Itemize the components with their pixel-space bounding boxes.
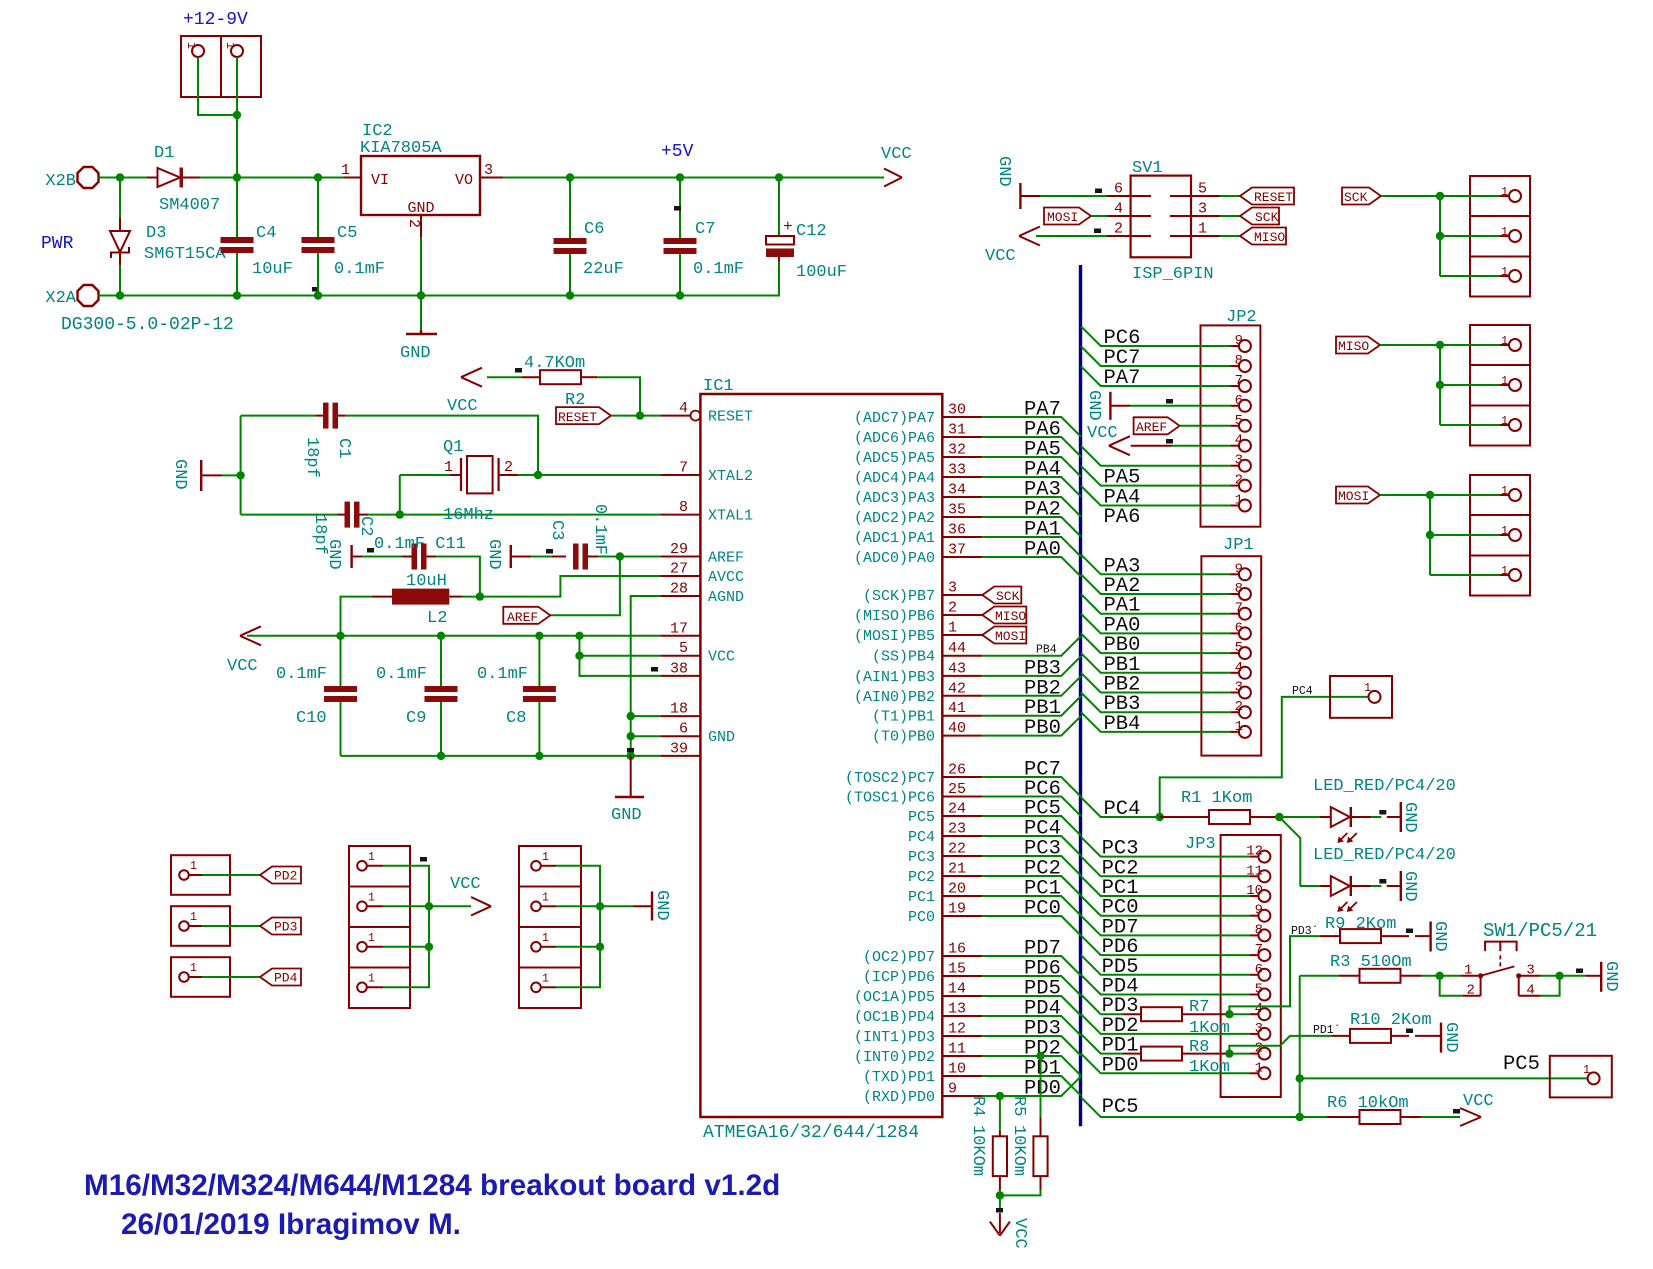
svg-text:100uF: 100uF — [796, 263, 847, 282]
svg-text:(ADC7)PA7: (ADC7)PA7 — [854, 410, 935, 427]
svg-text:PC0: PC0 — [1024, 898, 1061, 921]
svg-text:RESET: RESET — [1254, 190, 1293, 205]
svg-text:RESET: RESET — [708, 409, 753, 426]
svg-text:14: 14 — [948, 981, 966, 998]
svg-text:1: 1 — [542, 851, 549, 864]
svg-text:(T0)PB0: (T0)PB0 — [872, 729, 935, 746]
svg-text:28: 28 — [670, 581, 688, 598]
svg-text:1: 1 — [190, 860, 197, 873]
svg-text:43: 43 — [948, 660, 966, 677]
svg-text:PC2: PC2 — [908, 869, 935, 886]
svg-text:22uF: 22uF — [583, 260, 624, 279]
svg-text:1: 1 — [1198, 221, 1207, 238]
svg-text:4.7KOm: 4.7KOm — [524, 354, 585, 373]
svg-text:(ADC4)PA4: (ADC4)PA4 — [854, 470, 935, 487]
svg-text:39: 39 — [670, 740, 688, 757]
svg-text:1: 1 — [1235, 719, 1243, 735]
svg-text:0.1mF: 0.1mF — [376, 665, 427, 684]
svg-text:RESET: RESET — [558, 410, 597, 425]
svg-text:GND: GND — [484, 539, 503, 570]
svg-text:GND: GND — [708, 729, 735, 746]
svg-text:R9 2Kom: R9 2Kom — [1325, 915, 1396, 934]
svg-text:C3: C3 — [547, 520, 566, 540]
svg-text:1: 1 — [1501, 525, 1508, 538]
svg-text:15: 15 — [948, 961, 966, 978]
svg-text:36: 36 — [948, 522, 966, 539]
svg-text:PC4: PC4 — [1104, 798, 1141, 821]
svg-text:JP3: JP3 — [1185, 835, 1216, 854]
svg-text:1: 1 — [368, 932, 375, 945]
svg-text:38: 38 — [670, 660, 688, 677]
svg-text:(ADC6)PA6: (ADC6)PA6 — [854, 430, 935, 447]
svg-text:(OC1B)PD4: (OC1B)PD4 — [854, 1009, 935, 1026]
svg-text:1: 1 — [1501, 226, 1508, 239]
svg-text:ATMEGA16/32/644/1284: ATMEGA16/32/644/1284 — [703, 1123, 919, 1143]
svg-text:GND: GND — [1400, 802, 1419, 833]
svg-text:(T1)PB1: (T1)PB1 — [872, 709, 935, 726]
svg-text:(INT0)PD2: (INT0)PD2 — [854, 1049, 935, 1066]
svg-text:(INT1)PD3: (INT1)PD3 — [854, 1029, 935, 1046]
svg-text:PC5: PC5 — [1102, 1096, 1139, 1119]
svg-text:1: 1 — [184, 42, 197, 49]
svg-text:10: 10 — [948, 1061, 966, 1078]
svg-text:AREF: AREF — [708, 550, 744, 567]
svg-text:21: 21 — [948, 861, 966, 878]
svg-text:AVCC: AVCC — [708, 569, 744, 586]
svg-text:R4: R4 — [968, 1096, 987, 1116]
svg-text:6: 6 — [1255, 962, 1263, 978]
svg-text:LED_RED/PC4/20: LED_RED/PC4/20 — [1313, 846, 1456, 865]
svg-text:C7: C7 — [695, 220, 715, 239]
svg-text:C12: C12 — [796, 222, 827, 241]
svg-text:+5V: +5V — [661, 142, 694, 162]
svg-text:(TOSC1)PC6: (TOSC1)PC6 — [845, 790, 935, 807]
svg-text:6: 6 — [1235, 620, 1243, 636]
svg-text:PD0: PD0 — [1024, 1078, 1061, 1101]
svg-text:GND: GND — [994, 156, 1013, 187]
svg-text:3: 3 — [948, 580, 957, 597]
svg-text:1: 1 — [1501, 266, 1508, 279]
svg-text:10KOm: 10KOm — [968, 1125, 987, 1176]
svg-text:1: 1 — [1464, 963, 1472, 979]
svg-text:R7: R7 — [1189, 998, 1209, 1017]
svg-text:1: 1 — [542, 972, 549, 985]
svg-text:GND: GND — [652, 890, 671, 921]
svg-text:26: 26 — [948, 762, 966, 779]
svg-text:4: 4 — [1526, 982, 1534, 998]
svg-text:PA0: PA0 — [1024, 539, 1061, 562]
svg-text:26/01/2019 Ibragimov M.: 26/01/2019 Ibragimov M. — [121, 1208, 461, 1241]
svg-text:VCC: VCC — [1010, 1218, 1029, 1249]
svg-text:3: 3 — [484, 162, 493, 179]
svg-text:PD3´: PD3´ — [1291, 925, 1319, 938]
svg-text:GND: GND — [170, 459, 189, 490]
svg-text:0.1mF: 0.1mF — [477, 665, 528, 684]
svg-text:5: 5 — [1255, 982, 1263, 998]
svg-text:42: 42 — [948, 680, 966, 697]
svg-text:1: 1 — [1501, 415, 1508, 428]
svg-text:PC1: PC1 — [908, 889, 935, 906]
svg-text:0.1mF: 0.1mF — [334, 260, 385, 279]
svg-text:GND: GND — [1441, 1022, 1460, 1053]
svg-text:L2: L2 — [427, 609, 447, 628]
svg-text:PC4: PC4 — [1292, 685, 1313, 698]
svg-text:34: 34 — [948, 482, 966, 499]
svg-text:PD2: PD2 — [274, 869, 297, 884]
svg-text:PC4: PC4 — [908, 829, 935, 846]
svg-text:41: 41 — [948, 700, 966, 717]
svg-text:6: 6 — [679, 721, 688, 738]
svg-text:2: 2 — [1467, 982, 1475, 998]
svg-text:SCK: SCK — [1255, 210, 1279, 225]
svg-text:30: 30 — [948, 402, 966, 419]
svg-text:VCC: VCC — [1087, 424, 1118, 443]
svg-text:1: 1 — [1364, 682, 1371, 695]
svg-text:VCC: VCC — [881, 145, 912, 164]
svg-text:1: 1 — [1583, 1064, 1590, 1077]
svg-text:C4: C4 — [256, 224, 276, 243]
svg-text:10uH: 10uH — [406, 572, 447, 591]
svg-text:29: 29 — [670, 541, 688, 558]
svg-text:4: 4 — [1235, 660, 1243, 676]
svg-text:R8: R8 — [1189, 1038, 1209, 1057]
svg-text:MOSI: MOSI — [1338, 489, 1369, 504]
svg-text:GND: GND — [611, 806, 642, 825]
svg-text:18: 18 — [670, 701, 688, 718]
svg-text:35: 35 — [948, 502, 966, 519]
svg-text:PD3: PD3 — [274, 920, 297, 935]
svg-text:VO: VO — [455, 172, 473, 189]
svg-text:VCC: VCC — [708, 649, 735, 666]
svg-text:VCC: VCC — [450, 875, 481, 894]
svg-text:C6: C6 — [584, 220, 604, 239]
svg-text:GND: GND — [407, 200, 434, 217]
svg-text:SM4007: SM4007 — [159, 196, 220, 215]
svg-text:4: 4 — [1114, 201, 1123, 218]
svg-text:X2B: X2B — [45, 172, 76, 191]
svg-text:8: 8 — [1255, 922, 1263, 938]
svg-text:JP2: JP2 — [1226, 308, 1257, 327]
svg-text:(ADC2)PA2: (ADC2)PA2 — [854, 510, 935, 527]
svg-text:1: 1 — [341, 162, 350, 179]
svg-text:MOSI: MOSI — [1047, 210, 1078, 225]
svg-text:PD4: PD4 — [274, 971, 298, 986]
svg-text:(AIN0)PB2: (AIN0)PB2 — [854, 689, 935, 706]
svg-text:27: 27 — [670, 561, 688, 578]
svg-text:2: 2 — [1235, 699, 1243, 715]
svg-text:GND: GND — [1084, 390, 1103, 421]
svg-text:(MISO)PB6: (MISO)PB6 — [854, 608, 935, 625]
svg-text:24: 24 — [948, 801, 966, 818]
svg-text:R6 10kOm: R6 10kOm — [1327, 1094, 1409, 1113]
svg-text:9: 9 — [1255, 903, 1263, 919]
svg-text:(ADC0)PA0: (ADC0)PA0 — [854, 550, 935, 567]
svg-text:(TOSC2)PC7: (TOSC2)PC7 — [845, 770, 935, 787]
svg-text:JP1: JP1 — [1223, 536, 1254, 555]
svg-text:PB4: PB4 — [1104, 713, 1141, 736]
svg-text:2: 2 — [948, 600, 957, 617]
svg-text:25: 25 — [948, 781, 966, 798]
svg-text:5: 5 — [1198, 181, 1207, 198]
svg-text:13: 13 — [948, 1001, 966, 1018]
svg-text:7: 7 — [679, 460, 688, 477]
svg-text:AREF: AREF — [507, 610, 538, 625]
svg-text:SW1/PC5/21: SW1/PC5/21 — [1483, 920, 1597, 942]
svg-text:1: 1 — [1501, 335, 1508, 348]
svg-text:MOSI: MOSI — [995, 629, 1026, 644]
svg-text:18pf: 18pf — [302, 437, 321, 478]
svg-text:1: 1 — [444, 459, 453, 476]
svg-text:SM6T15CA: SM6T15CA — [144, 245, 226, 264]
svg-text:VI: VI — [371, 172, 389, 189]
svg-text:C9: C9 — [406, 709, 426, 728]
svg-text:37: 37 — [948, 542, 966, 559]
svg-text:(SS)PB4: (SS)PB4 — [872, 649, 935, 666]
svg-text:10uF: 10uF — [252, 260, 293, 279]
svg-text:GND: GND — [400, 344, 431, 363]
svg-text:XTAL2: XTAL2 — [708, 468, 753, 485]
svg-text:AREF: AREF — [1136, 420, 1167, 435]
svg-text:2: 2 — [1255, 1041, 1263, 1057]
svg-text:C5: C5 — [337, 224, 357, 243]
svg-text:16: 16 — [948, 941, 966, 958]
svg-text:MISO: MISO — [1338, 339, 1369, 354]
svg-text:40: 40 — [948, 720, 966, 737]
svg-text:1: 1 — [948, 620, 957, 637]
svg-text:GND: GND — [1601, 961, 1620, 992]
svg-text:1: 1 — [1501, 485, 1508, 498]
svg-text:3: 3 — [1255, 1021, 1263, 1037]
svg-text:PA6: PA6 — [1104, 506, 1141, 529]
svg-text:(TXD)PD1: (TXD)PD1 — [863, 1069, 935, 1086]
svg-text:XTAL1: XTAL1 — [708, 508, 753, 525]
svg-text:PB0: PB0 — [1024, 717, 1061, 740]
svg-text:1: 1 — [190, 911, 197, 924]
svg-text:31: 31 — [948, 422, 966, 439]
svg-text:6: 6 — [1114, 181, 1123, 198]
svg-text:KIA7805A: KIA7805A — [360, 139, 442, 158]
svg-text:23: 23 — [948, 821, 966, 838]
svg-text:7: 7 — [1235, 601, 1243, 617]
svg-text:(OC2)PD7: (OC2)PD7 — [863, 949, 935, 966]
svg-text:0.1mF: 0.1mF — [693, 260, 744, 279]
svg-text:20: 20 — [948, 881, 966, 898]
svg-text:IC1: IC1 — [703, 377, 734, 396]
svg-text:5: 5 — [1235, 640, 1243, 656]
svg-text:VCC: VCC — [1463, 1092, 1494, 1111]
svg-text:C2: C2 — [356, 516, 375, 536]
svg-text:3: 3 — [1198, 201, 1207, 218]
svg-text:10KOm: 10KOm — [1009, 1125, 1028, 1176]
svg-text:R1 1Kom: R1 1Kom — [1181, 789, 1252, 808]
svg-text:1: 1 — [542, 932, 549, 945]
svg-text:1Kom: 1Kom — [1189, 1058, 1230, 1077]
svg-text:5: 5 — [679, 640, 688, 657]
svg-text:SCK: SCK — [996, 589, 1020, 604]
svg-text:PWR: PWR — [41, 234, 74, 254]
svg-text:VCC: VCC — [985, 247, 1016, 266]
svg-text:1: 1 — [190, 962, 197, 975]
svg-text:12: 12 — [948, 1021, 966, 1038]
svg-text:19: 19 — [948, 901, 966, 918]
svg-text:1: 1 — [1501, 565, 1508, 578]
svg-text:44: 44 — [948, 640, 966, 657]
svg-text:4: 4 — [679, 400, 688, 417]
svg-text:2: 2 — [1114, 221, 1123, 238]
svg-text:32: 32 — [948, 442, 966, 459]
svg-text:1: 1 — [1501, 186, 1508, 199]
svg-text:22: 22 — [948, 841, 966, 858]
svg-text:3: 3 — [1235, 680, 1243, 696]
svg-text:MISO: MISO — [995, 609, 1026, 624]
svg-text:33: 33 — [948, 462, 966, 479]
svg-text:1: 1 — [368, 891, 375, 904]
svg-text:MISO: MISO — [1254, 230, 1285, 245]
svg-text:(SCK)PB7: (SCK)PB7 — [863, 588, 935, 605]
svg-text:GND: GND — [1400, 871, 1419, 902]
svg-text:1: 1 — [368, 851, 375, 864]
svg-text:R3 510Om: R3 510Om — [1330, 953, 1412, 972]
svg-text:PB4: PB4 — [1036, 644, 1057, 657]
svg-text:1Kom: 1Kom — [1189, 1019, 1230, 1038]
svg-text:(ADC5)PA5: (ADC5)PA5 — [854, 450, 935, 467]
svg-text:(MOSI)PB5: (MOSI)PB5 — [854, 628, 935, 645]
svg-text:11: 11 — [948, 1041, 966, 1058]
svg-text:1: 1 — [1255, 1060, 1263, 1076]
svg-text:1: 1 — [1501, 375, 1508, 388]
svg-text:(AIN1)PB3: (AIN1)PB3 — [854, 669, 935, 686]
svg-text:7: 7 — [1255, 942, 1263, 958]
svg-text:(ADC1)PA1: (ADC1)PA1 — [854, 530, 935, 547]
svg-text:8: 8 — [1235, 581, 1243, 597]
svg-text:16Mhz: 16Mhz — [443, 506, 494, 525]
svg-text:1: 1 — [223, 42, 236, 49]
svg-text:LED_RED/PC4/20: LED_RED/PC4/20 — [1313, 777, 1456, 796]
svg-text:PC5: PC5 — [908, 809, 935, 826]
svg-text:2: 2 — [504, 459, 513, 476]
svg-text:PC0: PC0 — [908, 909, 935, 926]
svg-text:PC3: PC3 — [908, 849, 935, 866]
svg-text:3: 3 — [1526, 963, 1534, 979]
svg-text:AGND: AGND — [708, 589, 744, 606]
svg-text:X2A: X2A — [45, 289, 76, 308]
svg-text:VCC: VCC — [227, 657, 258, 676]
svg-text:GND: GND — [324, 539, 343, 570]
svg-text:C8: C8 — [506, 709, 526, 728]
svg-text:VCC: VCC — [447, 397, 478, 416]
svg-text:R10 2Kom: R10 2Kom — [1350, 1011, 1432, 1030]
svg-text:17: 17 — [670, 620, 688, 637]
svg-text:8: 8 — [679, 499, 688, 516]
svg-text:R5: R5 — [1009, 1096, 1028, 1116]
svg-text:(ICP)PD6: (ICP)PD6 — [863, 969, 935, 986]
svg-text:GND: GND — [1430, 921, 1449, 952]
svg-text:(RXD)PD0: (RXD)PD0 — [863, 1089, 935, 1106]
svg-text:C10: C10 — [296, 709, 327, 728]
svg-text:DG300-5.0-02P-12: DG300-5.0-02P-12 — [61, 315, 234, 335]
svg-text:Q1: Q1 — [443, 438, 463, 457]
svg-text:2: 2 — [405, 219, 422, 228]
svg-text:SCK: SCK — [1344, 190, 1368, 205]
svg-text:1: 1 — [368, 972, 375, 985]
svg-text:0.1mF: 0.1mF — [276, 665, 327, 684]
svg-text:+12-9V: +12-9V — [183, 10, 248, 30]
svg-text:+: + — [783, 218, 793, 236]
svg-text:C1: C1 — [334, 438, 353, 458]
svg-text:PC5: PC5 — [1503, 1053, 1540, 1076]
svg-text:4: 4 — [1255, 1001, 1263, 1017]
svg-text:(OC1A)PD5: (OC1A)PD5 — [854, 989, 935, 1006]
svg-text:PA7: PA7 — [1104, 367, 1141, 390]
svg-text:D1: D1 — [154, 144, 174, 163]
svg-text:ISP_6PIN: ISP_6PIN — [1132, 265, 1214, 284]
svg-text:9: 9 — [948, 1081, 957, 1098]
svg-text:0.1mF C11: 0.1mF C11 — [374, 535, 466, 554]
svg-text:D3: D3 — [146, 224, 166, 243]
svg-text:9: 9 — [1235, 561, 1243, 577]
svg-text:1: 1 — [542, 891, 549, 904]
svg-text:M16/M32/M324/M644/M1284 breako: M16/M32/M324/M644/M1284 breakout board v… — [84, 1169, 780, 1202]
svg-text:0.1mF: 0.1mF — [590, 504, 609, 555]
svg-text:SV1: SV1 — [1132, 159, 1163, 178]
svg-text:(ADC3)PA3: (ADC3)PA3 — [854, 490, 935, 507]
